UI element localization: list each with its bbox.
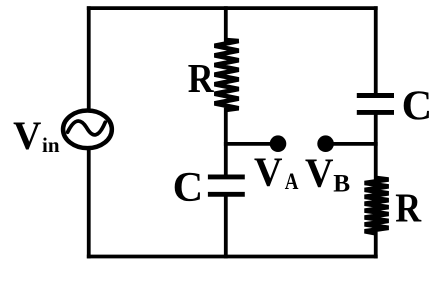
svg-text:V: V bbox=[305, 150, 333, 196]
svg-text:C: C bbox=[173, 164, 204, 211]
svg-text:A: A bbox=[285, 168, 299, 195]
svg-text:in: in bbox=[42, 133, 60, 157]
svg-text:V: V bbox=[254, 149, 282, 195]
svg-text:R: R bbox=[395, 185, 422, 231]
svg-text:C: C bbox=[402, 82, 433, 129]
svg-text:V: V bbox=[13, 113, 42, 158]
svg-text:R: R bbox=[188, 56, 215, 102]
svg-text:B: B bbox=[333, 170, 350, 198]
